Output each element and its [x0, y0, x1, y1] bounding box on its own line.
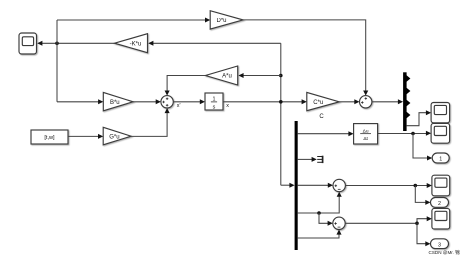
scope Scope2 (below Scope1)	[431, 123, 450, 143]
gain -K*u	[115, 34, 148, 53]
wire x vertical branch x=280.8	[280, 43, 282, 185]
wire x-vector into demux (from x junction down)	[281, 183, 295, 188]
svg-text:s: s	[213, 104, 216, 110]
mux tooth 2	[407, 88, 411, 95]
wire y-sum to mux	[372, 99, 403, 104]
node junction on error-sum1 output	[414, 184, 418, 188]
node junction on error-sum2 output	[415, 222, 419, 226]
svg-text:1: 1	[439, 157, 442, 163]
wire demux out5 to error-sum2 bottom	[298, 230, 342, 239]
svg-text:Δt: Δt	[363, 136, 368, 142]
sum error2 (circle)	[333, 217, 345, 229]
wire u to B*u input	[57, 99, 103, 104]
demux (long black bar)	[295, 121, 298, 250]
wire u-line into Scope with arrowhead	[37, 41, 114, 46]
gain C*u	[307, 92, 339, 119]
wire branch down to Out1	[413, 134, 432, 161]
outport Out2	[431, 198, 449, 208]
node x junction on main line	[279, 100, 283, 104]
svg-text:B*u: B*u	[110, 100, 120, 106]
wire G*u output to state-sum bottom	[131, 108, 170, 136]
terminator block	[317, 156, 322, 163]
scope Scope(u) top-left	[19, 33, 37, 54]
scope Scope3	[432, 175, 450, 196]
wire D*u output to y-sum (right then down)	[243, 20, 368, 96]
scope Scope1 (right top)	[431, 103, 450, 123]
wire u to D*u input (top)	[57, 18, 210, 23]
gain G*u	[103, 127, 131, 145]
mux tooth 1	[407, 75, 411, 82]
mux (short black bar)	[403, 72, 407, 131]
sum y output (circle)	[360, 96, 372, 108]
wire branch down to Out2	[415, 186, 430, 205]
gain B*u	[103, 92, 133, 110]
svg-text:2: 2	[438, 201, 441, 207]
svg-text:-K*u: -K*u	[130, 41, 142, 47]
svg-text:CSDN @Mr. 锦: CSDN @Mr. 锦	[429, 249, 461, 256]
scope Scope4	[432, 208, 450, 229]
wire x to A*u input	[238, 73, 280, 78]
wire x' sum output to integrator	[173, 99, 205, 109]
wire demux out4 (to error-sum1 bottom and error-sum2 left)	[298, 192, 342, 213]
svg-text:C*u: C*u	[313, 100, 323, 106]
sum error1 (circle)	[333, 179, 345, 191]
wire demux out2 to terminator	[298, 157, 317, 162]
node junction on derivative output	[411, 132, 415, 136]
gain A*u	[206, 66, 238, 85]
wire error-sum1 output to Scope3	[345, 183, 432, 188]
mux tooth 3	[407, 100, 411, 107]
source block [t,w] (from workspace)	[31, 130, 68, 144]
wire demux out1 to derivative	[298, 131, 354, 136]
wire C*u output to y-sum	[339, 99, 359, 104]
wire A*u output to state-sum top	[165, 76, 206, 96]
svg-text:G*u: G*u	[109, 135, 119, 141]
svg-text:A*u: A*u	[222, 74, 232, 80]
outport Out3	[431, 239, 449, 249]
wire B*u output to state-sum	[133, 99, 161, 104]
wire [t,w] to G*u input	[68, 134, 103, 139]
svg-text:3: 3	[438, 242, 441, 248]
derivative block du/dt	[354, 124, 378, 144]
node junction on out4	[317, 211, 321, 215]
wire demux out3 to error-sum1	[298, 183, 333, 188]
wire mux output to Scope1 (elbow)	[407, 110, 432, 126]
wire branch down to Out3	[417, 223, 431, 246]
sum state x' (circle)	[161, 96, 173, 108]
node u junction	[55, 42, 59, 46]
wire derivative output to Scope2	[378, 131, 432, 136]
wire u vertical branch x=57	[56, 20, 58, 102]
svg-text:D*u: D*u	[216, 18, 226, 24]
mux tooth 4	[407, 112, 411, 119]
wire x to -K*u input	[148, 41, 281, 46]
gain D*u	[210, 11, 243, 29]
svg-text:C: C	[319, 114, 324, 120]
integrator 1/s	[205, 93, 223, 110]
wire branch from out4 to error-sum2 left	[319, 213, 333, 226]
svg-text:x': x'	[177, 103, 181, 109]
node x junction on A*u feed	[279, 74, 283, 78]
outport Out1	[432, 153, 449, 163]
wire x from integrator to C*u (with label x)	[223, 99, 307, 109]
svg-text:x: x	[226, 103, 229, 109]
wire error-sum2 output to Scope4	[345, 216, 432, 223]
svg-text:[t,w]: [t,w]	[44, 135, 55, 141]
